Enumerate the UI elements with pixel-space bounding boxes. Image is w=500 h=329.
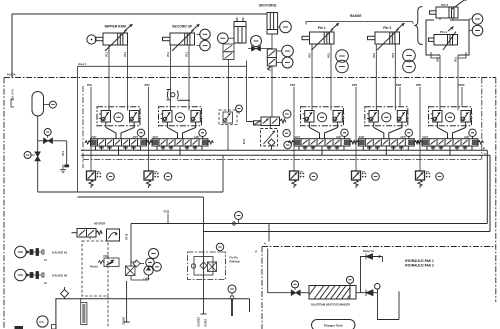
relief valve RV2 <box>144 171 153 188</box>
pilot line PR2 <box>148 87 150 171</box>
relief valve RV5 <box>416 171 425 188</box>
gauge G3 <box>218 33 229 44</box>
flow control with check <box>261 126 278 151</box>
svg-text:PR10: PR10 <box>458 83 465 87</box>
relief valve RV1 <box>87 171 96 188</box>
gauge pair right of box <box>472 14 483 25</box>
small fitting bottom left <box>52 325 57 329</box>
manifold boundary vertical left (dash-dot) <box>82 86 84 168</box>
wire ACC2 drop <box>228 60 230 113</box>
valve station 2 manifold <box>147 107 214 156</box>
manifold boundary vertical right (dash-dot) <box>481 78 483 160</box>
svg-text:PIn 4: PIn 4 <box>440 30 448 34</box>
gauge pair between station4/5 <box>403 49 416 62</box>
svg-text:V0.5: V0.5 <box>309 52 312 58</box>
filter element in tank <box>81 299 87 325</box>
orifice fitting on station2 port <box>167 90 191 101</box>
node diamond on pressure line <box>232 222 236 226</box>
wire pressure line y223 <box>131 223 487 225</box>
solenoid directional valve DIN pilot <box>247 117 286 126</box>
gauge on HX <box>346 276 353 283</box>
svg-text:PR2: PR2 <box>145 83 151 87</box>
wire pump connections <box>131 262 149 280</box>
svg-text:PcXDA: PcXDA <box>7 73 16 77</box>
wire section A drop <box>268 249 292 293</box>
svg-text:V0.75: V0.75 <box>126 233 129 240</box>
gauge on pressure line <box>235 212 243 220</box>
regulator box <box>107 229 120 241</box>
enclosure boundary top (dash-dot) <box>4 77 496 79</box>
plunger tank <box>312 320 356 329</box>
wire tank line y231 <box>204 231 491 233</box>
pilot stub PR8 <box>399 87 401 107</box>
solenoid valve stack DIN <box>267 49 276 70</box>
svg-text:PR4: PR4 <box>352 83 358 87</box>
gauge G5 <box>251 36 262 47</box>
svg-text:V2 SUC: V2 SUC <box>124 316 126 325</box>
gauge at drain valve <box>24 152 31 159</box>
svg-text:HEATER: HEATER <box>94 222 105 226</box>
relief valve RV4 <box>352 171 361 188</box>
reservoir tank outline <box>56 299 250 329</box>
wire box ports to station5 <box>440 55 458 111</box>
svg-text:PR5: PR5 <box>416 83 422 87</box>
wire CYL2 ports to station 2 <box>171 45 190 111</box>
svg-text:OIL/STEAM HEAT EXCHANGER: OIL/STEAM HEAT EXCHANGER <box>311 303 350 307</box>
wire drop to section A <box>268 224 270 242</box>
pump P1 <box>144 266 153 275</box>
relief valve RV3 <box>290 171 299 188</box>
motor M1 <box>37 316 48 327</box>
accumulator ACC2 vertical <box>234 18 246 44</box>
valve station 4 manifold <box>353 107 420 156</box>
gauge at accumulator <box>49 101 56 108</box>
pump motor group <box>149 249 159 259</box>
gauge at single cartridge <box>236 105 243 112</box>
wire HX outlet <box>356 292 378 294</box>
gauge pair right of CYL2 <box>200 29 210 39</box>
svg-text:V0.1: V0.1 <box>124 51 127 57</box>
wire jogs under cylinder box <box>431 52 466 58</box>
wire accumulator drop <box>37 116 39 192</box>
pilot line PR4 <box>355 87 357 171</box>
svg-text:V0.5: V0.5 <box>328 52 331 58</box>
valve station 1 manifold <box>85 107 152 156</box>
drain symbol to tank <box>60 165 66 173</box>
gauge at relief valve RV2 <box>164 173 172 181</box>
pilot stub PR10 <box>461 87 463 107</box>
svg-text:P: P <box>483 147 485 151</box>
cylinder CYL4 PIn3 <box>368 23 405 50</box>
cylinder CYL3 PIn1 <box>302 23 339 50</box>
svg-text:PIn 3: PIn 3 <box>383 26 391 30</box>
wire DIN cylinder drop <box>271 34 273 117</box>
wire riser x131 <box>130 224 132 267</box>
svg-text:V0.1: V0.1 <box>62 150 65 156</box>
svg-text:PIn 1: PIn 1 <box>318 26 326 30</box>
svg-text:HYDRAULIC PAK 2: HYDRAULIC PAK 2 <box>405 264 434 268</box>
pilot line PR1 <box>90 87 92 171</box>
dimension line RANGE <box>306 22 414 25</box>
pilot line PR3 <box>293 87 295 171</box>
wire CYL4 ports to station 4 <box>376 44 395 111</box>
single cartridge valve assembly <box>219 110 237 150</box>
enclosure box right cylinders <box>426 20 469 55</box>
wire CYL3 ports to station 3 <box>312 44 331 111</box>
gauge above filter box <box>216 243 223 250</box>
cylinder CYL1 main <box>96 24 133 51</box>
valve in HPU box <box>104 258 119 267</box>
svg-text:PdN Hok: PdN Hok <box>230 261 241 264</box>
heat exchanger HX1 <box>309 286 356 300</box>
svg-text:V100: V100 <box>103 255 109 258</box>
wire dump branch <box>361 257 383 293</box>
drain valve V2 <box>35 152 41 161</box>
svg-text:PR1: PR1 <box>87 83 93 87</box>
plugged line cap <box>64 165 69 168</box>
wire T riser right <box>489 155 491 231</box>
suction filter F1 <box>126 266 136 276</box>
off-line filter dashdot box <box>188 252 226 280</box>
wire return line A y192 <box>38 155 223 192</box>
gauge at HX inlet <box>291 281 298 288</box>
svg-text:V0.1: V0.1 <box>167 51 170 57</box>
enclosure boundary left (dash-dot) <box>3 78 5 329</box>
svg-text:PR8: PR8 <box>396 83 402 87</box>
svg-text:V2 RET: V2 RET <box>206 318 208 327</box>
wire line B y197 <box>78 197 204 314</box>
lower section boundary vertical (dash-dot) <box>261 247 263 329</box>
wire suction into tank <box>124 281 130 322</box>
accumulator ACC1 <box>32 92 44 117</box>
shutoff valve V1 <box>44 138 53 144</box>
lower section boundary horizontal (dash-dot) <box>262 246 496 248</box>
dump valve DV1 <box>366 254 373 260</box>
wire P riser right <box>486 150 488 223</box>
gauge pair between station3/4 <box>336 50 349 63</box>
brace right group <box>414 7 422 45</box>
svg-text:PR: PR <box>426 172 429 174</box>
filter loop internals <box>191 257 216 276</box>
gauge set GS2 <box>15 269 27 281</box>
wire left frame line <box>11 14 13 78</box>
svg-text:V0.5: V0.5 <box>455 56 458 62</box>
check valve CV1 <box>366 290 373 297</box>
manifold boundary horizontal (dash-dot) <box>83 159 482 161</box>
svg-text:GAUGE #1: GAUGE #1 <box>52 251 68 255</box>
svg-text:V0.5: V0.5 <box>437 56 440 62</box>
valve station 5 manifold <box>417 107 484 156</box>
wire T bus <box>81 154 490 156</box>
svg-text:FCB: FCB <box>164 210 170 214</box>
rod end gauge CYL1 <box>87 35 96 44</box>
wire feed to DIN pilot valve <box>246 66 248 121</box>
dashed stub heater to box <box>89 237 91 242</box>
gauge set GS1 <box>15 246 27 258</box>
valve stack under ACC2 <box>223 43 240 60</box>
wire P bus <box>81 149 487 151</box>
pilot line PR5 <box>419 87 421 171</box>
gauge at relief valve RV1 <box>107 173 115 181</box>
svg-text:V1.5 RET: V1.5 RET <box>199 316 201 327</box>
gauge pair DIN stack <box>282 45 294 57</box>
HPU dashed enclosure <box>82 241 108 296</box>
svg-text:B.11: B.11 <box>243 138 246 144</box>
svg-text:HYDRAULIC PAK 1: HYDRAULIC PAK 1 <box>405 259 434 263</box>
svg-text:PIn 5: PIn 5 <box>441 3 449 7</box>
breather diamond <box>61 287 69 299</box>
svg-text:PR3: PR3 <box>290 83 296 87</box>
check valve diamond <box>133 260 140 267</box>
gauge at valve V1 <box>44 129 51 136</box>
gauge at DIN cylinder <box>280 21 292 33</box>
svg-text:PR: PR <box>154 172 157 174</box>
svg-text:PR: PR <box>300 172 303 174</box>
wire vertical x77 <box>77 66 79 192</box>
enclosure boundary right (dash-dot) <box>495 78 497 303</box>
svg-text:class 1: class 1 <box>78 63 87 66</box>
svg-text:NIPPER RAM: NIPPER RAM <box>105 25 126 29</box>
shutoff valve HX <box>291 290 300 296</box>
dashed drop line <box>107 296 109 327</box>
gauge at relief valve RV5 <box>436 173 444 181</box>
wire drain header y66 <box>78 61 247 67</box>
wire tee to shutoff <box>38 141 67 165</box>
svg-text:GAUGE #2: GAUGE #2 <box>52 274 68 278</box>
svg-text:PR: PR <box>97 172 100 174</box>
svg-text:V0.1: V0.1 <box>186 51 189 57</box>
gauge at relief valve RV4 <box>372 173 380 181</box>
gauge above solenoid valve <box>283 110 291 118</box>
svg-text:V0.1: V0.1 <box>106 51 109 57</box>
svg-text:PR: PR <box>362 172 365 174</box>
title block mark <box>15 326 24 329</box>
wire CYL1 ports to station 1 <box>109 45 128 111</box>
gauge pair at flow control <box>283 130 290 137</box>
svg-text:V0.5: V0.5 <box>392 52 395 58</box>
valve station 3 manifold <box>289 107 356 156</box>
FCB tap <box>167 214 169 224</box>
svg-text:T: T <box>484 152 486 156</box>
svg-text:V0.5: V0.5 <box>373 52 376 58</box>
wire top frame line <box>12 13 267 15</box>
wire plunger tank loop <box>375 284 381 290</box>
temperature probe <box>228 285 236 293</box>
svg-text:Dump Vlv: Dump Vlv <box>363 250 375 253</box>
wire return into tank <box>200 313 206 315</box>
svg-text:Plunger Tank: Plunger Tank <box>324 324 343 328</box>
svg-text:SECOND UP: SECOND UP <box>172 25 193 29</box>
wire PIn5 stubs <box>440 18 453 20</box>
svg-text:Flo-Flx: Flo-Flx <box>230 257 239 260</box>
gauge at relief valve RV3 <box>310 173 318 181</box>
cylinder CYL2 second <box>163 24 200 51</box>
isolation valve DIN <box>252 46 261 51</box>
svg-text:Pulled: Pulled <box>90 266 98 269</box>
svg-text:RANGE: RANGE <box>350 14 362 18</box>
svg-text:DIN FORCE: DIN FORCE <box>259 4 277 8</box>
